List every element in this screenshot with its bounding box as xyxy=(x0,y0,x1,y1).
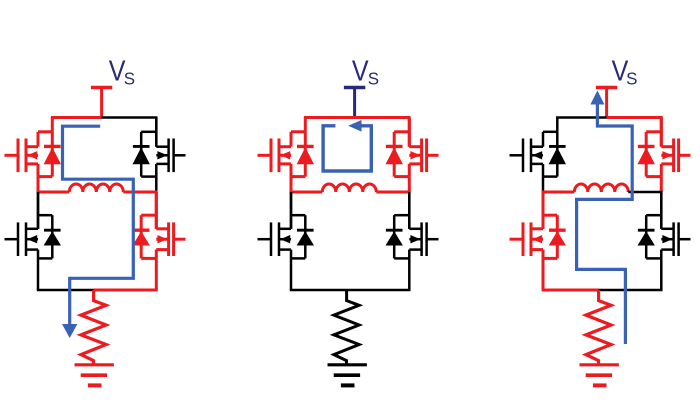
svg-text:S: S xyxy=(368,68,379,88)
svg-text:S: S xyxy=(626,68,637,88)
svg-text:S: S xyxy=(124,68,135,88)
svg-text:V: V xyxy=(352,55,369,87)
